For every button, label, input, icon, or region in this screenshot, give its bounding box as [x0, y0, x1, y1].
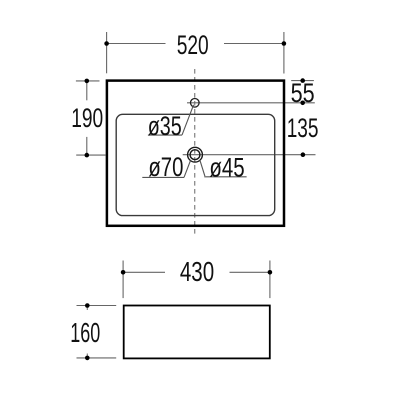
dimension 55: end dots: [300, 78, 305, 83]
dimension 190: bottom tick: [76, 154, 105, 156]
dimension 160: stub above bottom dot: [86, 354, 88, 358]
svg-text:430: 430: [180, 255, 214, 287]
svg-text:135: 135: [287, 113, 319, 143]
label ø35: leader line: [182, 105, 194, 135]
dimension 520: dimension line (gap for label): [107, 43, 166, 45]
dimension 160: end dots: [85, 303, 90, 308]
label ø45: underline: [204, 176, 246, 178]
svg-text:ø45: ø45: [209, 153, 244, 183]
drain outer circle: [188, 147, 203, 162]
dimension 160: bottom tick: [77, 357, 117, 359]
svg-text:190: 190: [71, 103, 103, 133]
centerline (dashed vertical axis of top view): [194, 69, 196, 237]
side view body rectangle: [124, 306, 270, 359]
dimension 430: extension line left: [122, 261, 124, 299]
dimension 520: extension line right: [283, 32, 285, 74]
label ø35: underline: [148, 134, 182, 136]
basin outer rim (top view): [107, 81, 284, 226]
dimension 160: top tick: [77, 305, 117, 307]
drain horizontal extension line: [183, 154, 316, 156]
dimension 520: end dots: [104, 41, 109, 46]
svg-text:55: 55: [291, 78, 315, 108]
dimension 190: top tick: [76, 80, 100, 82]
dimension 190: dimension line segments: [86, 81, 88, 100]
label ø70: underline: [142, 176, 184, 178]
basin bowl (inner rounded rectangle): [116, 114, 275, 215]
faucet-hole horizontal extension line: [187, 102, 315, 104]
svg-text:520: 520: [177, 30, 209, 60]
svg-text:ø35: ø35: [148, 111, 182, 141]
label ø45: leader line: [200, 160, 205, 176]
dimension 190: end dots: [85, 79, 90, 84]
dimension 520: extension line left: [106, 32, 108, 73]
dimension 430: end dots: [121, 270, 126, 275]
top-right corner tick line (55 upper reference): [291, 80, 314, 82]
svg-text:ø70: ø70: [148, 152, 183, 182]
label ø70: leader line: [184, 161, 191, 178]
dimension 430: dimension line (gap for label): [123, 271, 165, 273]
drain inner circle: [190, 150, 200, 160]
svg-text:160: 160: [70, 316, 100, 348]
dimension 160: stub below top dot: [86, 306, 88, 311]
dimension 430: extension line right: [269, 261, 271, 299]
dimension 135: end dot at drain line: [301, 152, 306, 157]
faucet hole circle: [191, 99, 200, 108]
